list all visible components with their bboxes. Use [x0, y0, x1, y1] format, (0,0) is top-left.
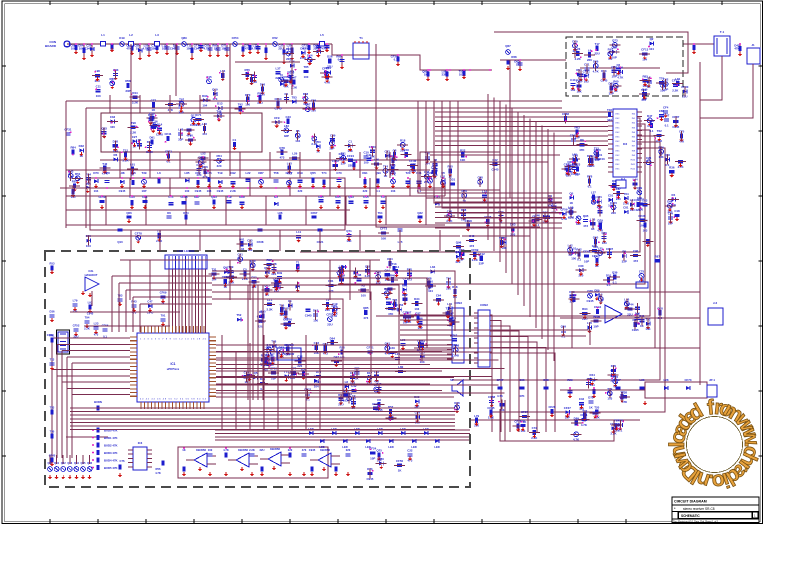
svg-text:473: 473 — [633, 259, 638, 263]
svg-text:Q89: Q89 — [181, 36, 187, 40]
svg-text:D19: D19 — [119, 36, 125, 40]
svg-text:4.7K: 4.7K — [252, 47, 258, 51]
svg-text:47K: 47K — [579, 148, 585, 152]
svg-text:473: 473 — [363, 316, 368, 320]
svg-text:Q6: Q6 — [580, 138, 584, 142]
svg-text:CF50: CF50 — [396, 459, 403, 463]
svg-text:D64: D64 — [330, 336, 336, 340]
svg-text:40 42 44 46 48 50 52 54 56 58: 40 42 44 46 48 50 52 54 56 58 60 64 — [140, 399, 207, 401]
svg-text:T20: T20 — [594, 406, 599, 410]
svg-text:L5: L5 — [320, 33, 324, 37]
svg-text:BUD4 47K: BUD4 47K — [104, 459, 118, 463]
svg-text:CF37: CF37 — [496, 378, 503, 382]
svg-text:103: 103 — [391, 189, 396, 193]
svg-text:473: 473 — [94, 333, 99, 337]
svg-text:100: 100 — [608, 203, 613, 207]
svg-text:C945: C945 — [492, 168, 499, 172]
svg-text:0.1: 0.1 — [649, 129, 653, 133]
svg-text:T1: T1 — [296, 260, 300, 264]
svg-text:C1: C1 — [233, 138, 237, 142]
svg-text:J1: J1 — [751, 43, 755, 47]
svg-text:22U: 22U — [587, 58, 592, 62]
svg-text:C27: C27 — [132, 135, 138, 139]
svg-text:R60: R60 — [613, 79, 619, 83]
svg-text:473: 473 — [322, 47, 327, 51]
svg-text:BUD3 47K: BUD3 47K — [104, 451, 118, 455]
svg-text:CF36: CF36 — [409, 159, 416, 163]
svg-text:T83: T83 — [292, 95, 297, 99]
svg-text:R50: R50 — [315, 140, 321, 144]
svg-text:uPD75xxx: uPD75xxx — [167, 367, 180, 371]
svg-text:C42: C42 — [469, 234, 475, 238]
svg-text:10P: 10P — [593, 325, 598, 329]
svg-text:Q9: Q9 — [612, 179, 616, 183]
svg-text:Q44: Q44 — [384, 268, 390, 272]
svg-text:KB4558: KB4558 — [196, 448, 206, 452]
svg-text:T61: T61 — [341, 152, 346, 156]
svg-text:47K: 47K — [734, 47, 739, 51]
svg-text:T83: T83 — [50, 406, 55, 410]
svg-text:100: 100 — [361, 294, 366, 298]
svg-text:T79: T79 — [659, 76, 664, 80]
svg-text:Q38: Q38 — [587, 289, 593, 293]
svg-text:D14: D14 — [307, 53, 313, 57]
svg-text:22U: 22U — [278, 47, 283, 51]
svg-text:T13: T13 — [392, 262, 397, 266]
svg-text:T68: T68 — [329, 137, 334, 141]
svg-text:C945: C945 — [305, 314, 312, 318]
svg-text:Q2: Q2 — [650, 37, 654, 41]
svg-text:C71: C71 — [196, 113, 202, 117]
svg-text:47K: 47K — [519, 394, 524, 398]
svg-text:C945: C945 — [309, 448, 316, 452]
svg-text:T97: T97 — [614, 419, 619, 423]
svg-text:C945: C945 — [194, 47, 201, 51]
svg-text:47K: 47K — [168, 108, 174, 112]
svg-text:100: 100 — [452, 343, 457, 347]
svg-text:C42: C42 — [492, 158, 498, 162]
svg-text:OSC: OSC — [615, 150, 620, 152]
svg-text:KB/CM: KB/CM — [284, 343, 294, 347]
svg-text:L36: L36 — [640, 378, 645, 382]
svg-text:Q55: Q55 — [310, 171, 316, 175]
svg-text:Q84: Q84 — [649, 119, 655, 123]
svg-text:220: 220 — [298, 189, 303, 193]
svg-text:C90: C90 — [633, 249, 639, 253]
svg-text:R54: R54 — [257, 91, 263, 95]
svg-text:L29: L29 — [292, 152, 297, 156]
svg-text:100: 100 — [638, 207, 643, 211]
svg-text:D6: D6 — [167, 211, 171, 215]
svg-text:SCHEMATIC: SCHEMATIC — [681, 514, 700, 518]
svg-text:R44: R44 — [590, 373, 596, 377]
svg-text:10P: 10P — [142, 189, 147, 193]
svg-text:220UCW: 220UCW — [284, 352, 295, 356]
svg-text:CF89: CF89 — [282, 75, 289, 79]
svg-text:LED: LED — [354, 427, 359, 431]
svg-text:CF66: CF66 — [102, 323, 109, 327]
svg-text:L91: L91 — [130, 163, 135, 167]
svg-text:R84: R84 — [70, 146, 76, 150]
svg-text:Q49: Q49 — [642, 87, 648, 91]
svg-text:Q95: Q95 — [583, 214, 589, 218]
svg-text:T64: T64 — [378, 211, 383, 215]
svg-text:R56: R56 — [156, 467, 161, 471]
svg-text:0.1: 0.1 — [665, 123, 669, 127]
svg-text:L79: L79 — [73, 298, 78, 302]
svg-text:R51: R51 — [75, 172, 81, 176]
svg-text:L22: L22 — [246, 171, 251, 175]
svg-text:Q97: Q97 — [305, 103, 311, 107]
svg-text:CF85: CF85 — [487, 406, 494, 410]
svg-text:L87: L87 — [616, 187, 621, 191]
svg-text:C22: C22 — [407, 449, 413, 453]
svg-text:LED: LED — [342, 445, 347, 449]
svg-text:0.1: 0.1 — [376, 189, 380, 193]
svg-text:CF2: CF2 — [195, 171, 201, 175]
svg-text:IC1: IC1 — [171, 362, 176, 366]
svg-text:LED: LED — [308, 427, 313, 431]
svg-text:100: 100 — [316, 380, 321, 384]
svg-text:R94: R94 — [384, 287, 390, 291]
svg-text:D91: D91 — [362, 171, 368, 175]
svg-text:Q85: Q85 — [363, 306, 369, 310]
svg-text:Q89: Q89 — [637, 186, 643, 190]
svg-text:X-1: X-1 — [621, 177, 626, 181]
svg-text:2.2K: 2.2K — [84, 327, 90, 331]
svg-text:10P: 10P — [370, 456, 375, 460]
svg-text:OSC: OSC — [615, 155, 620, 157]
svg-text:22U: 22U — [260, 448, 265, 452]
svg-text:KB4558: KB4558 — [238, 448, 248, 452]
svg-text:L3: L3 — [155, 33, 159, 37]
svg-text:C11: C11 — [366, 153, 372, 157]
svg-text:CF69: CF69 — [160, 290, 167, 294]
svg-text:2.2K: 2.2K — [230, 189, 236, 193]
svg-text:T46: T46 — [607, 108, 612, 112]
svg-text:10K: 10K — [221, 47, 226, 51]
svg-text:R50: R50 — [591, 196, 597, 200]
svg-text:4.7K: 4.7K — [143, 47, 149, 51]
svg-text:100: 100 — [571, 256, 576, 260]
svg-text:SP: SP — [450, 378, 454, 382]
svg-text:103: 103 — [643, 228, 648, 232]
svg-text:4.7K: 4.7K — [497, 394, 503, 398]
svg-text:R40: R40 — [390, 273, 396, 277]
svg-text:D70: D70 — [93, 171, 99, 175]
svg-text:104: 104 — [71, 47, 76, 51]
svg-text:0.1: 0.1 — [338, 58, 342, 62]
svg-text:C92: C92 — [230, 171, 236, 175]
svg-text:LED: LED — [388, 445, 393, 449]
svg-text:33P: 33P — [442, 73, 447, 77]
svg-text:D99: D99 — [667, 200, 673, 204]
svg-text:D36: D36 — [50, 310, 55, 314]
svg-text:CF43: CF43 — [583, 250, 590, 254]
svg-text:BOARD: BOARD — [45, 44, 57, 48]
svg-text:104: 104 — [162, 47, 167, 51]
svg-text:L6: L6 — [157, 171, 161, 175]
svg-text:C65: C65 — [519, 378, 525, 382]
svg-text:L28: L28 — [664, 378, 669, 382]
svg-text:100: 100 — [304, 75, 309, 79]
svg-text:Q32: Q32 — [417, 211, 423, 215]
svg-text:C63: C63 — [283, 318, 289, 322]
svg-text:LED LEDKB: LED LEDKB — [177, 249, 195, 253]
svg-text:D61: D61 — [328, 279, 334, 283]
svg-text:C64: C64 — [436, 293, 442, 297]
svg-text:L31: L31 — [440, 174, 445, 178]
svg-text:OSC: OSC — [615, 127, 620, 129]
svg-text:1K: 1K — [516, 63, 520, 67]
svg-text:T64: T64 — [624, 192, 629, 196]
svg-text:CF76: CF76 — [637, 198, 644, 202]
svg-text:L-2: L-2 — [640, 277, 644, 281]
svg-text:4.7K: 4.7K — [581, 423, 588, 427]
svg-text:473: 473 — [302, 448, 307, 452]
svg-text:OSC: OSC — [615, 141, 620, 143]
svg-text:T20: T20 — [406, 171, 411, 175]
svg-text:103: 103 — [414, 307, 419, 311]
svg-text:C945: C945 — [119, 189, 126, 193]
svg-text:T62: T62 — [657, 129, 662, 133]
svg-text:C945: C945 — [587, 299, 594, 303]
svg-text:D54: D54 — [216, 154, 222, 158]
svg-text:LED: LED — [331, 427, 336, 431]
svg-text:22U: 22U — [275, 76, 280, 80]
svg-text:R2: R2 — [361, 284, 365, 288]
svg-text:CON2: CON2 — [480, 303, 488, 307]
svg-text:D87: D87 — [258, 171, 264, 175]
svg-text:L84: L84 — [430, 265, 435, 269]
svg-text:T74: T74 — [322, 171, 327, 175]
svg-text:D49: D49 — [277, 271, 283, 275]
svg-text:103: 103 — [607, 118, 612, 122]
svg-text:LED: LED — [423, 427, 428, 431]
svg-text:1K: 1K — [214, 47, 218, 51]
svg-text:D28: D28 — [543, 378, 549, 382]
svg-text:R82: R82 — [642, 74, 648, 78]
svg-text:T42: T42 — [102, 162, 107, 166]
svg-text:L83: L83 — [284, 124, 289, 128]
svg-text:C76: C76 — [120, 459, 125, 463]
svg-text:T57: T57 — [452, 333, 457, 337]
svg-text:R70: R70 — [386, 297, 392, 301]
svg-text:104: 104 — [94, 189, 99, 193]
svg-text:C51: C51 — [608, 194, 614, 198]
svg-text:T40: T40 — [50, 430, 55, 434]
svg-text:C6: C6 — [616, 63, 620, 67]
svg-text:JP-1: JP-1 — [709, 378, 715, 382]
svg-text:D89: D89 — [574, 417, 580, 421]
svg-text:473: 473 — [245, 47, 250, 51]
svg-text:C72: C72 — [532, 426, 538, 430]
svg-text:R55: R55 — [245, 68, 251, 72]
svg-text:Q39: Q39 — [612, 271, 618, 275]
svg-text:33P: 33P — [125, 89, 130, 93]
svg-text:D47: D47 — [647, 114, 653, 118]
svg-text:103: 103 — [343, 399, 348, 403]
svg-text:Q67: Q67 — [505, 44, 511, 48]
svg-text:10K: 10K — [151, 47, 156, 51]
svg-text:22U: 22U — [594, 52, 599, 56]
svg-text:OSC: OSC — [615, 169, 620, 171]
svg-text:220: 220 — [286, 57, 291, 61]
svg-text:T83: T83 — [118, 293, 123, 297]
svg-text:473: 473 — [280, 156, 285, 160]
svg-text:T91: T91 — [161, 313, 166, 317]
svg-text:CF30: CF30 — [638, 214, 645, 218]
svg-text:L96: L96 — [374, 158, 379, 162]
svg-text:OSC: OSC — [615, 164, 620, 166]
svg-text:CF54: CF54 — [232, 36, 239, 40]
svg-text:CF8: CF8 — [104, 171, 110, 175]
svg-text:1K: 1K — [424, 73, 428, 77]
svg-text:33P: 33P — [284, 134, 289, 138]
svg-text:22U: 22U — [74, 335, 79, 339]
svg-text:R23: R23 — [251, 275, 257, 279]
svg-text:L65: L65 — [390, 163, 395, 167]
svg-text:T98: T98 — [131, 121, 136, 125]
svg-text:stereo receiver SR-C8: stereo receiver SR-C8 — [683, 507, 715, 511]
svg-text:R28: R28 — [390, 171, 396, 175]
svg-text:R36: R36 — [669, 165, 675, 169]
svg-text:2.2K: 2.2K — [672, 89, 679, 93]
svg-text:100: 100 — [185, 189, 190, 193]
svg-text:Q10: Q10 — [117, 240, 123, 244]
svg-text:L2: L2 — [129, 33, 133, 37]
svg-text:CF13: CF13 — [641, 48, 648, 52]
svg-text:C945: C945 — [217, 189, 224, 193]
svg-text:R6: R6 — [452, 316, 456, 320]
svg-text:R58: R58 — [125, 79, 131, 83]
svg-text:CF45: CF45 — [49, 454, 56, 458]
svg-text:22U: 22U — [627, 312, 632, 316]
svg-text:BUDN: BUDN — [94, 400, 102, 404]
svg-text:D91: D91 — [149, 136, 155, 140]
svg-text:R94: R94 — [582, 307, 588, 311]
svg-text:10K: 10K — [381, 237, 387, 241]
svg-text:OSC: OSC — [615, 132, 620, 134]
svg-text:CF69: CF69 — [471, 248, 478, 252]
svg-text:LED: LED — [319, 445, 324, 449]
svg-text:2.2K: 2.2K — [249, 448, 255, 452]
svg-text:C70: C70 — [336, 171, 342, 175]
svg-text:KB4558: KB4558 — [270, 447, 280, 451]
svg-text:10P: 10P — [612, 55, 617, 59]
svg-text:OSC: OSC — [615, 160, 620, 162]
svg-text:100: 100 — [110, 125, 115, 129]
svg-text:R53: R53 — [50, 262, 55, 266]
svg-text:D89: D89 — [572, 162, 578, 166]
svg-text:L86: L86 — [278, 211, 283, 215]
svg-text:CF41: CF41 — [164, 132, 171, 136]
svg-text:OSC: OSC — [615, 146, 620, 148]
svg-text:IC3: IC3 — [138, 441, 143, 445]
svg-text:D90: D90 — [202, 94, 208, 98]
svg-text:C1: C1 — [348, 139, 352, 143]
svg-text:T92: T92 — [238, 102, 243, 106]
svg-text:CF77: CF77 — [285, 171, 292, 175]
svg-text:Q18: Q18 — [274, 279, 280, 283]
svg-text:104: 104 — [639, 224, 644, 228]
svg-text:Q42: Q42 — [594, 254, 600, 258]
svg-text:R29: R29 — [567, 378, 573, 382]
svg-text:T12: T12 — [123, 149, 128, 153]
svg-text:0.1: 0.1 — [103, 335, 107, 339]
svg-text:CF21: CF21 — [367, 346, 374, 350]
svg-text:220: 220 — [363, 189, 368, 193]
svg-text:L79: L79 — [474, 414, 479, 418]
svg-text:OSC: OSC — [615, 118, 620, 120]
svg-text:L23: L23 — [575, 47, 580, 51]
svg-text:4.7K: 4.7K — [204, 47, 210, 51]
svg-text:OSC: OSC — [615, 137, 620, 139]
svg-text:100: 100 — [364, 160, 369, 164]
svg-text:220: 220 — [217, 164, 222, 168]
svg-text:C3L: C3L — [88, 269, 94, 273]
svg-text:100: 100 — [208, 448, 213, 452]
svg-text:LED: LED — [400, 427, 405, 431]
svg-text:D17: D17 — [367, 371, 373, 375]
svg-text:CF9: CF9 — [274, 116, 280, 120]
svg-text:104: 104 — [649, 47, 654, 51]
svg-text:OSC: OSC — [615, 123, 620, 125]
svg-text:CF4: CF4 — [663, 106, 669, 110]
svg-text:IC2: IC2 — [623, 142, 628, 146]
svg-text:CF67: CF67 — [311, 211, 318, 215]
svg-text:R44: R44 — [132, 91, 138, 95]
svg-text:C26: C26 — [646, 156, 652, 160]
svg-text:R80: R80 — [379, 457, 385, 461]
svg-text:0.1: 0.1 — [613, 280, 617, 284]
svg-text:C60: C60 — [578, 264, 584, 268]
svg-text:L9: L9 — [588, 48, 592, 52]
svg-text:D64: D64 — [326, 66, 332, 70]
svg-text:R4: R4 — [672, 193, 676, 197]
svg-text:Doc Revision A0.1 Dwn Chk: Doc Revision A0.1 Dwn Chk Sheet 1 of 1 — [673, 520, 719, 523]
svg-text:473: 473 — [583, 224, 588, 228]
svg-text:L52: L52 — [201, 152, 206, 156]
svg-text:C945: C945 — [266, 353, 273, 357]
svg-text:22U: 22U — [424, 180, 429, 184]
svg-text:T1: T1 — [359, 36, 363, 40]
svg-text:CF7: CF7 — [151, 98, 157, 102]
svg-text:D24: D24 — [286, 47, 292, 51]
svg-text:104: 104 — [202, 104, 207, 108]
svg-text:C81: C81 — [623, 206, 629, 210]
svg-text:1K: 1K — [136, 47, 140, 51]
svg-text:Q63: Q63 — [611, 46, 617, 50]
svg-text:R26: R26 — [339, 346, 345, 350]
svg-text:D34: D34 — [414, 297, 420, 301]
svg-text:LED: LED — [365, 445, 370, 449]
svg-text:C945: C945 — [85, 47, 92, 51]
svg-text:R18: R18 — [400, 139, 406, 143]
svg-text:BUD5 47K: BUD5 47K — [104, 466, 118, 470]
svg-text:22U: 22U — [327, 323, 332, 327]
svg-text:0.1: 0.1 — [394, 58, 398, 62]
svg-text:4.7K: 4.7K — [155, 471, 161, 475]
svg-text:Q71: Q71 — [346, 229, 352, 233]
svg-text:BUD2 47K: BUD2 47K — [104, 444, 118, 448]
svg-text:CF78: CF78 — [135, 231, 142, 235]
svg-text:D26: D26 — [327, 55, 333, 59]
svg-text:BUD1 47K: BUD1 47K — [104, 436, 118, 440]
svg-text:C43: C43 — [285, 115, 291, 119]
svg-text:HASHOUT: HASHOUT — [85, 273, 98, 277]
svg-text:L85: L85 — [185, 171, 190, 175]
